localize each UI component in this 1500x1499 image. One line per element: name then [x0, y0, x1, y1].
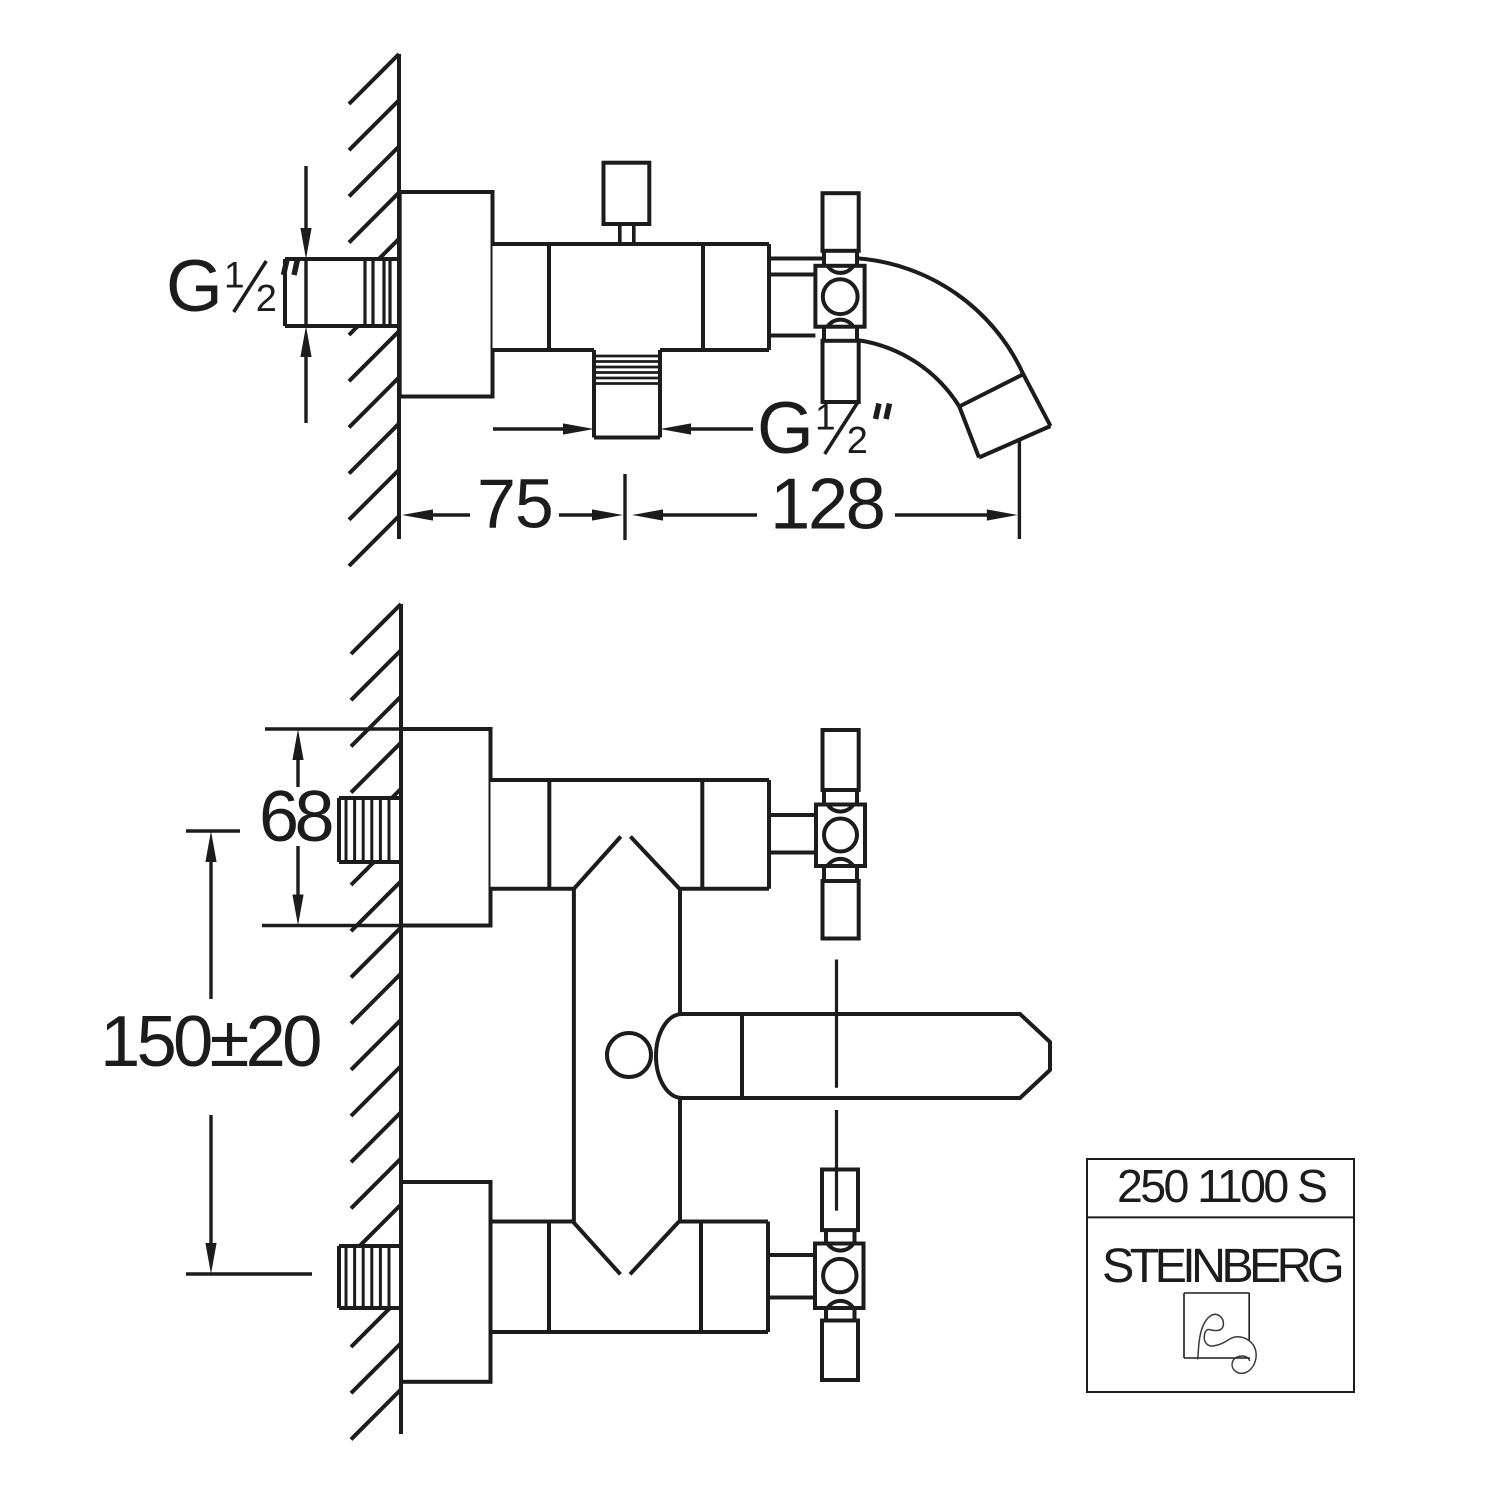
svg-text:2: 2	[256, 278, 277, 320]
svg-text:G: G	[757, 388, 814, 469]
svg-text:G: G	[166, 246, 223, 327]
svg-text:75: 75	[477, 465, 553, 543]
svg-text:2: 2	[847, 420, 868, 462]
svg-text:250 1100 S: 250 1100 S	[1117, 1160, 1326, 1212]
svg-text:128: 128	[770, 464, 884, 545]
svg-text:68: 68	[259, 777, 332, 857]
svg-text:1: 1	[224, 254, 245, 295]
svg-text:1: 1	[815, 396, 836, 437]
svg-text:150±20: 150±20	[100, 1001, 320, 1082]
svg-text:STEINBERG: STEINBERG	[1102, 1239, 1342, 1293]
